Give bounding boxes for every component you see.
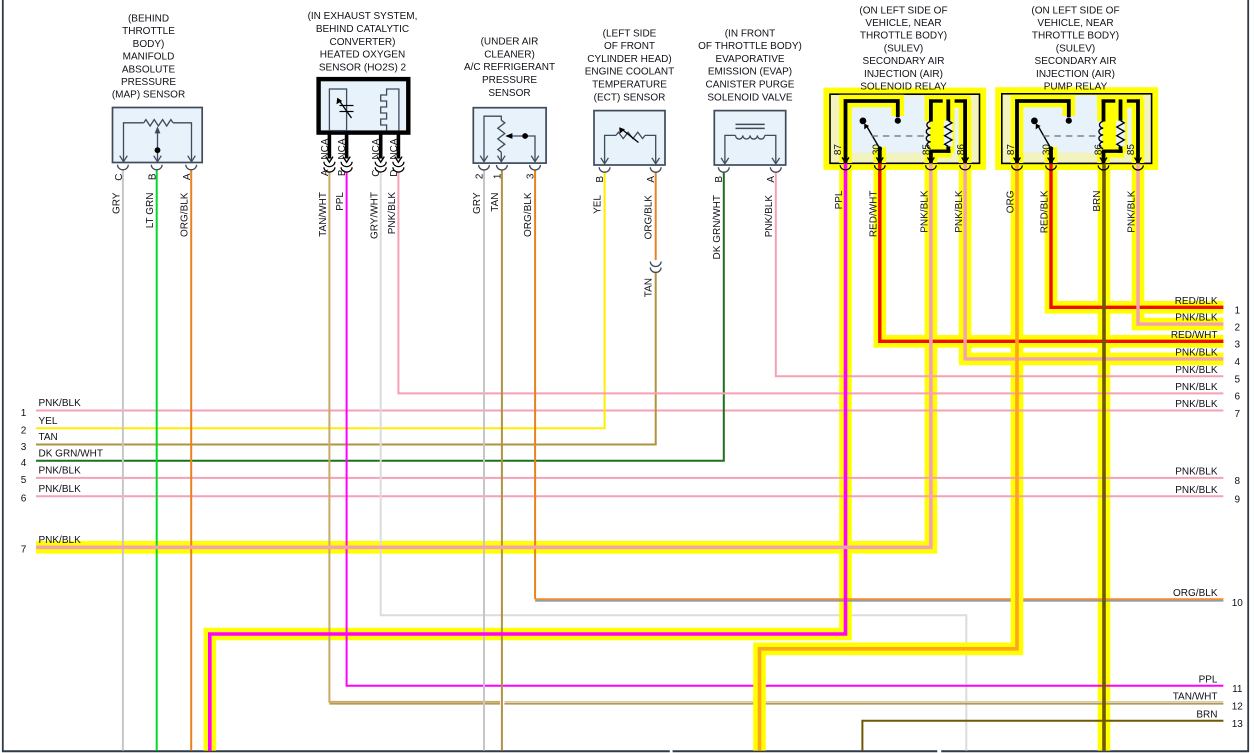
AC potentiometer symbol bbox=[480, 116, 539, 162]
svg-text:6: 6 bbox=[21, 494, 27, 505]
svg-text:87: 87 bbox=[833, 144, 844, 156]
svg-text:(ON LEFT SIDE OF: (ON LEFT SIDE OF bbox=[1031, 5, 1119, 16]
svg-text:PNK/BLK: PNK/BLK bbox=[1127, 190, 1138, 233]
svg-text:PNK/BLK: PNK/BLK bbox=[39, 398, 82, 409]
svg-text:PPL: PPL bbox=[1199, 674, 1218, 685]
svg-text:ENGINE COOLANT: ENGINE COOLANT bbox=[585, 67, 674, 78]
svg-text:TEMPERATURE: TEMPERATURE bbox=[592, 80, 667, 91]
highlight band ORG circuit lower bbox=[760, 589, 1018, 751]
svg-text:ORG/BLK: ORG/BLK bbox=[644, 195, 655, 240]
svg-text:6: 6 bbox=[1235, 392, 1241, 403]
svg-text:PNK/BLK: PNK/BLK bbox=[1175, 365, 1218, 376]
svg-text:PNK/BLK: PNK/BLK bbox=[387, 192, 398, 235]
svg-text:PNK/BLK: PNK/BLK bbox=[39, 535, 82, 546]
svg-text:SENSOR (HO2S) 2: SENSOR (HO2S) 2 bbox=[319, 63, 407, 74]
svg-text:SENSOR: SENSOR bbox=[488, 88, 530, 99]
svg-text:4: 4 bbox=[21, 458, 27, 469]
svg-text:1: 1 bbox=[492, 173, 503, 179]
svg-text:INJECTION (AIR): INJECTION (AIR) bbox=[1036, 69, 1115, 80]
wire ORG from relay K2 pin 87 (highlighted) bbox=[760, 163, 1018, 751]
svg-text:(IN EXHAUST SYSTEM,: (IN EXHAUST SYSTEM, bbox=[308, 11, 418, 22]
splice connector on ECT pin A wire bbox=[650, 262, 661, 273]
HO2S caption bbox=[308, 11, 418, 74]
wire TAN from AC sensor pin 1 to bottom bbox=[501, 170, 503, 751]
svg-text:7: 7 bbox=[1235, 409, 1241, 420]
svg-text:2: 2 bbox=[21, 426, 27, 437]
svg-text:(MAP) SENSOR: (MAP) SENSOR bbox=[112, 90, 185, 101]
ECT wire labels bbox=[593, 195, 655, 240]
svg-text:ORG/BLK: ORG/BLK bbox=[523, 192, 534, 237]
svg-text:NCA: NCA bbox=[320, 138, 331, 159]
wire PPL from HO2S pin B to right wire 11 bbox=[347, 173, 1224, 686]
svg-text:(ON LEFT SIDE OF: (ON LEFT SIDE OF bbox=[859, 5, 947, 16]
svg-text:GRY: GRY bbox=[472, 192, 483, 214]
highlight band RED/BLK circuit (relay K2 pin 30 to wire 1) bbox=[1051, 165, 1223, 307]
HO2S pins A B C D bbox=[324, 131, 404, 172]
svg-text:LT GRN: LT GRN bbox=[145, 193, 156, 229]
svg-text:CLEANER): CLEANER) bbox=[484, 49, 535, 60]
highlight band ORG circuit upper (relay K2 pin 87) bbox=[1011, 165, 1024, 601]
svg-text:RED/WHT: RED/WHT bbox=[869, 191, 880, 238]
svg-text:BRN: BRN bbox=[1196, 709, 1217, 720]
svg-text:THROTTLE: THROTTLE bbox=[122, 26, 175, 37]
svg-text:PNK/BLK: PNK/BLK bbox=[954, 190, 965, 233]
wire RED/WHT from relay K1 pin 30 to right wire 3 (highlighted) bbox=[880, 163, 1224, 341]
svg-text:5: 5 bbox=[21, 475, 27, 486]
page border left bbox=[2, 0, 4, 752]
svg-text:NCA: NCA bbox=[371, 138, 382, 159]
EVAP pin letters B A bbox=[714, 176, 777, 183]
AC pin connectors bbox=[479, 165, 541, 170]
EVAP solenoid coil symbol bbox=[721, 124, 780, 163]
highlight band RED/WHT circuit (relay K1 pin 30 to wire 3) bbox=[880, 165, 1224, 341]
svg-text:8: 8 bbox=[1235, 476, 1241, 487]
svg-text:3: 3 bbox=[525, 173, 536, 179]
MAP pin connectors bbox=[118, 165, 197, 170]
svg-text:A: A bbox=[182, 173, 193, 180]
HO2S wire labels bbox=[318, 192, 398, 239]
svg-text:B: B bbox=[595, 176, 606, 183]
svg-text:INJECTION (AIR): INJECTION (AIR) bbox=[864, 69, 943, 80]
svg-text:YEL: YEL bbox=[39, 416, 58, 427]
svg-text:BEHIND CATALYTIC: BEHIND CATALYTIC bbox=[316, 24, 409, 35]
EVAP caption bbox=[698, 28, 802, 103]
svg-text:RED/WHT: RED/WHT bbox=[1171, 330, 1218, 341]
highlight band BRN circuit (relay K2 pin 86) bbox=[1098, 165, 1111, 751]
wire GRY from MAP pin C to bottom bbox=[122, 170, 124, 751]
wire GRY from AC sensor pin 2 to bottom bbox=[483, 170, 485, 751]
svg-text:2: 2 bbox=[1235, 322, 1241, 333]
ECT pin letters B A bbox=[595, 176, 657, 183]
svg-text:(SULEV): (SULEV) bbox=[1056, 43, 1095, 54]
svg-text:DK GRN/WHT: DK GRN/WHT bbox=[39, 448, 103, 459]
MAP potentiometer symbol bbox=[120, 120, 196, 162]
svg-text:A: A bbox=[320, 169, 331, 176]
svg-text:ABSOLUTE: ABSOLUTE bbox=[122, 64, 176, 75]
svg-text:5: 5 bbox=[1235, 375, 1241, 386]
svg-text:SOLENOID VALVE: SOLENOID VALVE bbox=[707, 92, 793, 103]
svg-text:C: C bbox=[114, 174, 125, 181]
svg-text:85: 85 bbox=[922, 144, 933, 156]
highlight band PNK/BLK circuit (relay K2 pin 85 to wire 2) bbox=[1138, 165, 1223, 324]
svg-text:TAN/WHT: TAN/WHT bbox=[318, 192, 329, 237]
svg-text:THROTTLE BODY): THROTTLE BODY) bbox=[1032, 31, 1119, 42]
svg-text:(ECT) SENSOR: (ECT) SENSOR bbox=[594, 92, 666, 103]
svg-text:YEL: YEL bbox=[593, 195, 604, 214]
svg-text:1: 1 bbox=[21, 408, 27, 419]
svg-text:PUMP RELAY: PUMP RELAY bbox=[1044, 82, 1108, 93]
svg-text:86: 86 bbox=[956, 144, 967, 156]
svg-text:(LEFT SIDE: (LEFT SIDE bbox=[603, 28, 657, 39]
wire RED/BLK from relay K2 pin 30 to right wire 1 (highlighted) bbox=[1051, 163, 1223, 307]
svg-text:PNK/BLK: PNK/BLK bbox=[1175, 485, 1218, 496]
relay K2 internal highlight bbox=[1017, 95, 1143, 163]
wire ORG/BLK from ECT pin A to splice bbox=[655, 172, 657, 260]
AC pressure sensor box bbox=[473, 108, 546, 163]
svg-text:PNK/BLK: PNK/BLK bbox=[1175, 347, 1218, 358]
wire BRN from relay K2 pin 86 to bottom (highlighted) bbox=[1102, 163, 1106, 751]
svg-text:PNK/BLK: PNK/BLK bbox=[1175, 382, 1218, 393]
highlight band PPL circuit upper (relay K1 pin 87) bbox=[839, 165, 852, 561]
svg-text:(BEHIND: (BEHIND bbox=[128, 13, 169, 24]
left wire number/name labels bbox=[21, 398, 103, 555]
svg-text:PNK/BLK: PNK/BLK bbox=[1175, 399, 1218, 410]
svg-text:CONVERTER): CONVERTER) bbox=[330, 37, 396, 48]
svg-text:BODY): BODY) bbox=[133, 39, 165, 50]
wire BRN right-13 bbox=[862, 721, 1223, 751]
svg-text:A/C REFRIGERANT: A/C REFRIGERANT bbox=[464, 62, 555, 73]
wire PNK/BLK from relay K2 pin 85 to right wire 2 (highlighted) bbox=[1138, 163, 1223, 324]
svg-text:EMISSION (EVAP): EMISSION (EVAP) bbox=[708, 67, 792, 78]
svg-text:PNK/BLK: PNK/BLK bbox=[764, 195, 775, 238]
svg-text:87: 87 bbox=[1006, 144, 1017, 156]
svg-text:PPL: PPL bbox=[335, 192, 346, 211]
svg-text:(UNDER AIR: (UNDER AIR bbox=[481, 37, 539, 48]
svg-text:SECONDARY AIR: SECONDARY AIR bbox=[1035, 56, 1117, 67]
MAP sensor box bbox=[113, 108, 203, 163]
wire PPL from relay K1 pin 87 (highlighted) bbox=[210, 163, 846, 751]
wire left-5 / right-8 PNK/BLK full width bbox=[36, 477, 1223, 479]
svg-text:BRN: BRN bbox=[1092, 191, 1103, 212]
svg-text:OF FRONT: OF FRONT bbox=[604, 41, 655, 52]
svg-text:13: 13 bbox=[1232, 719, 1244, 730]
svg-text:3: 3 bbox=[1235, 340, 1241, 351]
svg-text:ORG: ORG bbox=[1006, 190, 1017, 213]
HO2S sensing cell bbox=[329, 89, 353, 131]
wire PNK/BLK from EVAP pin A to right wire 5 bbox=[776, 172, 1224, 376]
AC caption bbox=[464, 37, 555, 99]
svg-text:ORG/BLK: ORG/BLK bbox=[180, 192, 191, 237]
svg-text:PNK/BLK: PNK/BLK bbox=[920, 190, 931, 233]
relay K2 caption bbox=[1031, 5, 1119, 92]
wire LT GRN from MAP pin B to bottom bbox=[156, 170, 158, 751]
svg-text:PRESSURE: PRESSURE bbox=[121, 77, 176, 88]
MAP wire labels bbox=[111, 192, 190, 237]
svg-text:PPL: PPL bbox=[834, 190, 845, 209]
relay K1 body (AIR solenoid relay) bbox=[823, 88, 986, 170]
svg-text:7: 7 bbox=[21, 545, 27, 556]
svg-text:12: 12 bbox=[1232, 701, 1244, 712]
svg-text:VEHICLE, NEAR: VEHICLE, NEAR bbox=[865, 18, 941, 29]
HO2S heater element bbox=[381, 89, 399, 131]
svg-text:SOLENOID RELAY: SOLENOID RELAY bbox=[860, 82, 947, 93]
relay K2 pin numbers 87 30 86 85 bbox=[1006, 144, 1137, 156]
svg-text:NCA: NCA bbox=[337, 138, 348, 159]
HO2S heated oxygen sensor box bbox=[319, 79, 409, 133]
svg-text:10: 10 bbox=[1232, 598, 1244, 609]
svg-text:9: 9 bbox=[1235, 495, 1241, 506]
svg-text:VEHICLE, NEAR: VEHICLE, NEAR bbox=[1037, 18, 1113, 29]
svg-text:TAN: TAN bbox=[39, 432, 58, 443]
svg-text:86: 86 bbox=[1094, 144, 1105, 156]
relay K1 wire labels bbox=[834, 190, 965, 237]
svg-text:RED/BLK: RED/BLK bbox=[1040, 190, 1051, 233]
svg-text:(IN FRONT: (IN FRONT bbox=[725, 28, 776, 39]
svg-text:C: C bbox=[371, 170, 382, 177]
wire TAN/WHT from HO2S pin A to right wire 12 bbox=[329, 173, 1223, 704]
svg-text:4: 4 bbox=[1235, 357, 1241, 368]
svg-text:SECONDARY AIR: SECONDARY AIR bbox=[863, 56, 945, 67]
svg-text:DK GRN/WHT: DK GRN/WHT bbox=[712, 195, 723, 259]
svg-text:PNK/BLK: PNK/BLK bbox=[39, 484, 82, 495]
EVAP purge solenoid box bbox=[714, 111, 785, 165]
wire GRY/WHT from HO2S pin C down right down to bottom bbox=[381, 173, 967, 751]
wire PNK/BLK from relay K1 pin 85 to left wire 7 (highlighted) bbox=[36, 163, 931, 547]
svg-text:PNK/BLK: PNK/BLK bbox=[1175, 466, 1218, 477]
svg-text:ORG/BLK: ORG/BLK bbox=[1173, 588, 1218, 599]
wire left-3 TAN from splice bbox=[36, 272, 656, 445]
AC pin numbers 2 1 3 bbox=[474, 173, 536, 179]
svg-text:PNK/BLK: PNK/BLK bbox=[1175, 313, 1218, 324]
svg-text:A: A bbox=[766, 176, 777, 183]
right wire number/name labels bbox=[1171, 296, 1243, 730]
svg-text:EVAPORATIVE: EVAPORATIVE bbox=[715, 54, 784, 65]
highlight band PNK/BLK circuit (relay K1 pin 86 to wire 4) bbox=[965, 165, 1223, 359]
highlight band PPL circuit lower bbox=[210, 560, 846, 751]
svg-text:B: B bbox=[148, 173, 159, 180]
svg-text:1: 1 bbox=[1235, 306, 1241, 317]
svg-text:85: 85 bbox=[1126, 144, 1137, 156]
svg-text:CANISTER PURGE: CANISTER PURGE bbox=[706, 80, 795, 91]
svg-text:TAN: TAN bbox=[490, 193, 501, 212]
HO2S NCA pin labels bbox=[320, 138, 400, 177]
wire left-6 / right-9 PNK/BLK full width bbox=[36, 495, 1223, 497]
svg-text:GRY: GRY bbox=[111, 192, 122, 214]
svg-text:2: 2 bbox=[474, 173, 485, 179]
EVAP pin connectors bbox=[718, 167, 781, 172]
ECT pin connectors bbox=[599, 167, 661, 172]
relay K1 internal highlight bbox=[846, 95, 971, 163]
svg-text:MANIFOLD: MANIFOLD bbox=[123, 52, 175, 63]
relay K2 body (AIR pump relay) bbox=[995, 87, 1158, 170]
page border right bbox=[1247, 0, 1249, 752]
wire left-1 / right-7 PNK/BLK full width bbox=[36, 410, 1223, 412]
svg-text:RED/BLK: RED/BLK bbox=[1175, 296, 1218, 307]
wire left-4 DK GRN/WHT from EVAP pin B bbox=[36, 172, 724, 460]
svg-text:B: B bbox=[714, 176, 725, 183]
relay K2 internal circuit bbox=[1012, 99, 1144, 170]
svg-text:CYLINDER HEAD): CYLINDER HEAD) bbox=[587, 54, 671, 65]
wire ORG/BLK from AC sensor pin 3 to right wire 10 bbox=[535, 170, 1223, 601]
svg-text:PRESSURE: PRESSURE bbox=[482, 75, 537, 86]
wire PNK/BLK from relay K1 pin 86 to right wire 4 (highlighted) bbox=[965, 163, 1223, 359]
svg-text:3: 3 bbox=[21, 442, 27, 453]
svg-text:TAN: TAN bbox=[644, 278, 655, 297]
relay K1 pin numbers 87 30 85 86 bbox=[833, 144, 967, 156]
ECT sensor box bbox=[594, 111, 665, 165]
highlight band PNK/BLK circuit (relay K1 pin 85 to left wire 7) bbox=[36, 165, 931, 547]
relay K2 wire labels bbox=[1006, 190, 1138, 233]
EVAP wire labels bbox=[712, 195, 775, 260]
svg-text:PNK/BLK: PNK/BLK bbox=[39, 466, 82, 477]
svg-text:TAN/WHT: TAN/WHT bbox=[1173, 692, 1218, 703]
wire PNK/BLK from HO2S pin D to right wire 6 bbox=[398, 173, 1223, 394]
relay K1 internal circuit bbox=[840, 99, 970, 170]
svg-text:11: 11 bbox=[1232, 684, 1243, 695]
svg-text:(SULEV): (SULEV) bbox=[884, 43, 923, 54]
TAN label below splice bbox=[644, 278, 655, 297]
svg-text:A: A bbox=[646, 176, 657, 183]
wire ORG/BLK from MAP pin A to bottom bbox=[190, 170, 192, 751]
svg-text:30: 30 bbox=[872, 144, 883, 156]
page border bottom bbox=[2, 750, 1249, 752]
svg-text:D: D bbox=[389, 170, 400, 177]
svg-text:THROTTLE BODY): THROTTLE BODY) bbox=[860, 31, 947, 42]
svg-text:HEATED OXYGEN: HEATED OXYGEN bbox=[320, 50, 405, 61]
svg-text:30: 30 bbox=[1041, 144, 1052, 156]
AC wire labels bbox=[472, 192, 534, 237]
relay K1 caption bbox=[859, 5, 947, 92]
ECT caption bbox=[585, 28, 674, 103]
MAP caption bbox=[112, 13, 185, 100]
svg-text:B: B bbox=[337, 169, 348, 176]
wire left-2 YEL from ECT pin B bbox=[36, 172, 605, 428]
svg-text:NCA: NCA bbox=[389, 138, 400, 159]
svg-text:GRY/WHT: GRY/WHT bbox=[369, 192, 380, 239]
ECT thermistor symbol bbox=[601, 127, 660, 164]
MAP pin letters C B A bbox=[114, 173, 193, 181]
svg-text:OF THROTTLE BODY): OF THROTTLE BODY) bbox=[698, 41, 802, 52]
